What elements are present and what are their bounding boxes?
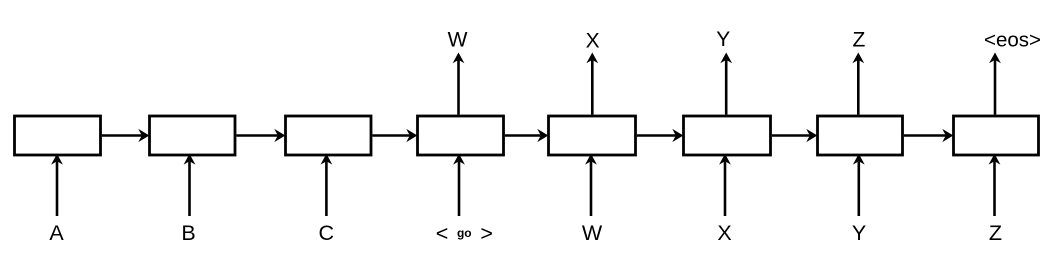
RNN cell box 2 [150,116,236,155]
RNN cell box 6 [684,116,771,155]
svg-text:X: X [717,221,731,245]
RNN cell box 8 [954,116,1039,155]
wire: output arrow from box 5 [591,60,594,115]
wire: horizontal arrow box6 to box7 [772,134,810,137]
svg-text:X: X [586,29,600,52]
svg-text:W: W [448,28,468,51]
wire: horizontal arrow box7 to box8 [904,134,946,137]
wire: input arrow into box 6 [724,161,727,216]
wire: output arrow from box 7 [857,60,860,115]
RNN cell box 1 [15,116,101,155]
svg-text:A: A [49,221,64,245]
wire: input arrow into box 8 [993,161,996,216]
wire: horizontal arrow box2 to box3 [236,134,277,137]
RNN cell box 5 [549,116,636,155]
svg-text:B: B [181,221,195,245]
wire: output arrow from box 6 [725,60,728,115]
wire: horizontal arrow box1 to box2 [102,134,142,137]
svg-text:Y: Y [852,221,866,245]
svg-text:<: < [436,221,449,245]
svg-text:go: go [457,226,472,240]
RNN cell box 4 [418,116,504,155]
RNN cell box 3 [286,116,372,155]
wire: input arrow into box 7 [857,161,860,216]
wire: horizontal arrow box4 to box5 [505,134,541,137]
wire: input arrow into box 2 [188,161,191,216]
svg-text:Z: Z [989,221,1002,245]
svg-text:<eos>: <eos> [984,29,1041,52]
wire: output arrow from box 8 [994,60,997,115]
svg-text:Z: Z [852,28,865,51]
wire: horizontal arrow box5 to box6 [637,134,676,137]
svg-text:>: > [480,221,493,245]
wire: output arrow from box 4 [457,60,460,115]
wire: input arrow into box 5 [590,161,593,216]
wire: input arrow into box 4 [458,161,461,216]
wire: input arrow into box 3 [325,161,328,216]
wire: horizontal arrow box3 to box4 [372,134,409,137]
RNN cell box 7 [818,116,903,155]
svg-text:W: W [582,221,603,245]
svg-text:Y: Y [716,28,730,51]
wire: input arrow into box 1 [56,161,59,216]
svg-text:C: C [319,221,335,245]
